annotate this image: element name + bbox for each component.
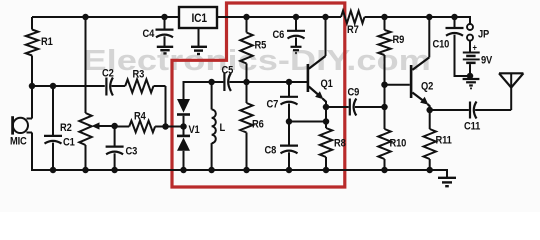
capacitor C2 — [105, 78, 107, 96]
svg-text:R2: R2 — [60, 122, 72, 134]
svg-text:R3: R3 — [133, 69, 145, 81]
svg-text:C9: C9 — [348, 87, 360, 99]
wire top rail middle segment — [217, 16, 341, 18]
resistor R6 — [246, 82, 248, 103]
junction node C7/C8 — [286, 118, 293, 125]
junction node battery minus — [467, 73, 474, 80]
svg-text:L: L — [220, 122, 226, 134]
svg-text:R11: R11 — [436, 135, 453, 147]
svg-text:R4: R4 — [134, 111, 146, 123]
wire oscillator tank top — [184, 81, 224, 83]
junction bottom rail / V1 — [180, 167, 187, 174]
resistor R5 — [246, 17, 248, 33]
ground under C6 — [291, 46, 302, 48]
junction bottom rail / R8 — [323, 167, 330, 174]
capacitor C4 — [164, 17, 166, 29]
varactor pair V1 — [183, 81, 185, 100]
svg-text:C6: C6 — [273, 29, 285, 41]
junction top rail / R9 — [381, 14, 388, 21]
junction bottom rail / R6 — [243, 167, 250, 174]
ground under IC1 — [191, 46, 207, 48]
svg-text:R7: R7 — [347, 24, 359, 36]
junction node C9/R10 — [381, 104, 388, 111]
svg-text:R1: R1 — [41, 36, 53, 48]
transistor Q2 — [410, 65, 413, 98]
junction node R2 wiper/R4/C3 — [111, 123, 118, 130]
junction top rail / C6 — [293, 14, 300, 21]
svg-text:C1: C1 — [63, 137, 75, 149]
svg-text:C11: C11 — [464, 121, 481, 133]
capacitor C10 — [454, 17, 456, 27]
svg-text:C4: C4 — [143, 28, 155, 40]
svg-text:C7: C7 — [267, 99, 279, 111]
ground under battery — [469, 76, 471, 79]
svg-text:V1: V1 — [189, 124, 201, 136]
wire C7/C8 node to emitter column — [289, 121, 326, 123]
capacitor C6 — [295, 17, 297, 30]
junction node Q2 base — [381, 81, 388, 88]
wire node to varactor V1 — [166, 126, 184, 128]
wire C5 to Q1 base — [230, 81, 308, 83]
junction bottom rail / R11 — [426, 167, 433, 174]
capacitor C9 — [326, 106, 349, 108]
capacitor C1 — [52, 85, 54, 135]
wire bottom rail — [31, 169, 33, 171]
junction bottom rail / L — [208, 167, 215, 174]
svg-text:Q1: Q1 — [321, 78, 334, 90]
junction node R5/R6 — [243, 79, 250, 86]
junction bottom rail / C3 — [111, 167, 118, 174]
capacitor C7 — [288, 82, 290, 96]
red highlight box — [172, 3, 345, 187]
capacitor C8 — [288, 122, 290, 146]
svg-text:C2: C2 — [102, 68, 114, 80]
wire node row y86 — [31, 85, 33, 87]
junction node R1 bottom — [29, 83, 36, 90]
R2 wiper arrow — [92, 122, 100, 129]
wire JP to battery — [469, 41, 471, 53]
junction bottom rail / C1 — [50, 167, 57, 174]
wire top rail right segment — [365, 16, 471, 18]
wire R3 corner down to R4 node — [154, 85, 166, 87]
inductor L — [211, 81, 213, 110]
junction node Q1 emitter — [323, 104, 330, 111]
svg-text:+: + — [473, 42, 478, 53]
svg-text:R6: R6 — [252, 119, 264, 131]
svg-text:JP: JP — [478, 29, 489, 41]
junction bottom rail / R2 — [82, 167, 89, 174]
junction top rail / R2 column — [82, 14, 89, 21]
wire top rail left segment — [32, 16, 179, 18]
resistor R1 — [31, 17, 33, 30]
antenna — [510, 73, 512, 110]
junction node V1 mid — [180, 123, 187, 130]
svg-text:C3: C3 — [126, 146, 138, 158]
svg-text:IC1: IC1 — [192, 12, 207, 25]
junction node R8 top — [323, 118, 330, 125]
resistor R4 — [115, 126, 130, 128]
svg-text:C8: C8 — [265, 145, 277, 157]
wire IC1 ground pin — [198, 28, 200, 46]
resistor R2 (pot) — [79, 113, 91, 145]
capacitor C3 — [114, 126, 116, 146]
resistor R7 — [341, 11, 365, 23]
svg-text:Q2: Q2 — [421, 81, 434, 93]
wire C10 bottom to battery node — [454, 75, 471, 77]
ground under C4 — [157, 46, 173, 48]
resistor R8 — [320, 128, 332, 157]
junction node R3/R4 — [162, 123, 169, 130]
junction bottom rail / C8 — [286, 167, 293, 174]
wire JP drop from rail — [469, 16, 471, 24]
capacitor C11 — [430, 109, 469, 111]
junction top rail / Q2 collector — [426, 14, 433, 21]
svg-text:R9: R9 — [393, 34, 405, 46]
microphone MIC — [31, 86, 33, 119]
junction node C1 top — [50, 83, 57, 90]
junction node C7 top — [286, 79, 293, 86]
svg-text:C10: C10 — [433, 39, 450, 51]
resistor R10 — [378, 129, 390, 159]
capacitor C5 — [223, 73, 225, 91]
junction bottom rail / R10 — [381, 167, 388, 174]
svg-text:R10: R10 — [390, 138, 407, 150]
svg-text:C5: C5 — [222, 65, 234, 77]
battery 9V — [463, 52, 480, 54]
svg-text:R5: R5 — [255, 40, 267, 52]
wire bottom rail corner to ground — [446, 169, 448, 178]
svg-text:MIC: MIC — [10, 136, 27, 148]
transistor Q1 — [325, 17, 327, 56]
junction top rail / R5 — [243, 14, 250, 21]
voltage regulator IC1 — [179, 7, 217, 28]
jumper JP pins — [467, 24, 473, 30]
junction node L top — [208, 79, 215, 86]
svg-text:9V: 9V — [481, 55, 492, 67]
wire Q1 emitter node down to R8 — [325, 107, 327, 128]
junction node Q2 emitter — [426, 107, 433, 114]
ground bottom right — [438, 177, 456, 179]
wire Q2 base — [385, 84, 410, 86]
junction top rail / C10 — [451, 14, 458, 21]
resistor R11 — [429, 110, 431, 129]
resistor R3 — [125, 79, 153, 92]
wire R2 column from top rail — [85, 17, 87, 113]
svg-text:R8: R8 — [334, 138, 346, 150]
resistor R9 — [384, 17, 386, 30]
junction top rail / C4 — [161, 14, 168, 21]
junction top rail / Q1 collector — [322, 14, 329, 21]
